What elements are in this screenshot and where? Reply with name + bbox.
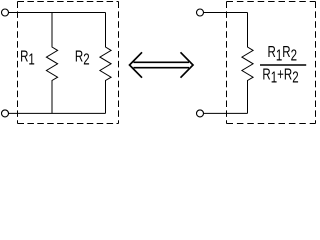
wire bottom (T2 to R2 bottom)	[9, 112, 106, 114]
svg-text:R1R2: R1R2	[268, 44, 298, 64]
resistor Req (equivalent)	[242, 13, 253, 114]
svg-text:R1: R1	[20, 49, 35, 69]
terminal T3 (top-left of right circuit)	[197, 9, 204, 16]
terminal T1 (top-left)	[2, 9, 9, 16]
svg-text:R2: R2	[75, 48, 90, 68]
fraction bar	[260, 64, 306, 66]
wire top right (T3 to Req)	[204, 12, 248, 14]
terminal T2 (bottom-left)	[2, 110, 9, 117]
wire top (T1 to R2 top)	[9, 12, 106, 14]
wire bottom right (T4 to Req)	[204, 112, 248, 114]
equivalence arrow (double-headed)	[130, 52, 194, 77]
terminal T4 (bottom-left of right circuit)	[197, 110, 204, 117]
resistor R2	[100, 13, 111, 114]
resistor R1	[46, 13, 57, 114]
enclosure box right (dashed)	[227, 2, 316, 124]
enclosure box left (dashed)	[18, 2, 119, 124]
svg-text:R1+R2: R1+R2	[262, 66, 298, 86]
